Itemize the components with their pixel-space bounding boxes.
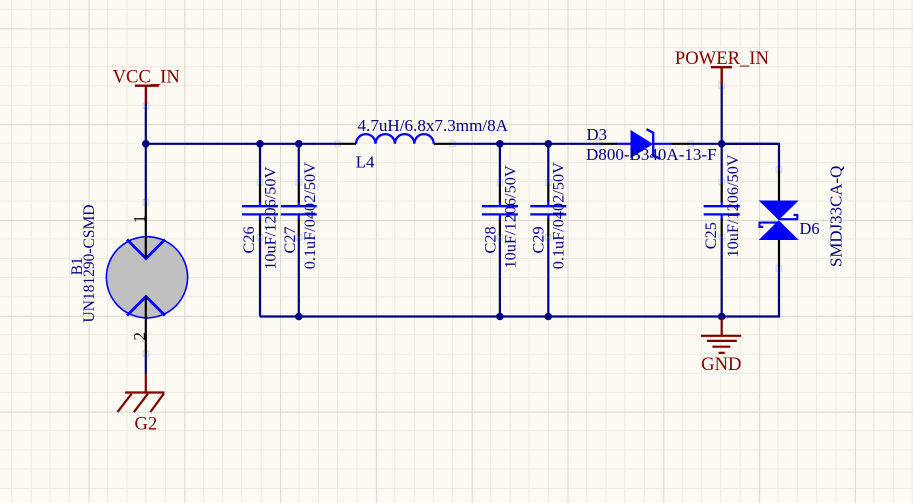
capacitor C25 bbox=[704, 201, 740, 220]
node junction C28 top bbox=[496, 140, 504, 148]
svg-text:10uF/1206/50V: 10uF/1206/50V bbox=[500, 165, 519, 268]
wire C26 top bbox=[259, 144, 261, 183]
wire C29 top bbox=[547, 144, 549, 183]
wire bottom rail bbox=[260, 315, 722, 317]
svg-text:C25: C25 bbox=[701, 222, 720, 249]
wire B1 to G2 bbox=[145, 354, 147, 375]
pin C26 top bbox=[259, 183, 261, 202]
node junction C29 bottom bbox=[545, 313, 553, 321]
svg-text:G2: G2 bbox=[135, 414, 158, 435]
pin C29 top bbox=[547, 183, 549, 202]
capacitor C28 bbox=[482, 201, 518, 220]
pin C29 bottom bbox=[547, 219, 549, 237]
node junction VCC bbox=[142, 140, 150, 148]
svg-text:POWER_IN: POWER_IN bbox=[675, 48, 769, 69]
svg-text:C28: C28 bbox=[480, 226, 499, 253]
TVS diode D6 bbox=[759, 201, 799, 241]
wire C26 bottom bbox=[259, 237, 261, 316]
pin 2 of B1 bbox=[145, 297, 147, 354]
svg-text:SMDJ33CA-Q: SMDJ33CA-Q bbox=[827, 166, 846, 267]
pin C28 top bbox=[499, 183, 501, 202]
wire C27 bottom bbox=[298, 237, 300, 316]
capacitor C27 bbox=[281, 201, 317, 220]
power port POWER_IN bbox=[675, 48, 769, 85]
pin C27 bottom bbox=[298, 219, 300, 237]
pin C25 top bbox=[721, 183, 723, 202]
pin C25 bottom bbox=[721, 219, 723, 237]
pin hotspot markers bbox=[143, 83, 782, 357]
svg-text:10uF/1206/50V: 10uF/1206/50V bbox=[723, 154, 742, 257]
pin D6 top bbox=[778, 169, 780, 200]
svg-text:UN181290-CSMD: UN181290-CSMD bbox=[81, 205, 98, 323]
wire diode to POWER_IN node bbox=[691, 143, 779, 145]
svg-text:D6: D6 bbox=[800, 219, 820, 238]
wire B1 top bbox=[145, 144, 147, 202]
power port GND bbox=[701, 317, 741, 375]
wire main top rail bbox=[146, 143, 338, 145]
pin D3 right bbox=[672, 143, 691, 145]
power port VCC_IN bbox=[113, 67, 180, 105]
wire C29 bottom bbox=[547, 237, 549, 316]
pin D3 left bbox=[599, 143, 617, 145]
node junction C27 bottom bbox=[295, 313, 303, 321]
wire POWER_IN to D6 branch top bbox=[722, 144, 779, 170]
pin C27 top bbox=[298, 183, 300, 202]
svg-text:0.1uF/0402/50V: 0.1uF/0402/50V bbox=[548, 162, 567, 269]
svg-text:D3: D3 bbox=[587, 125, 608, 144]
svg-text:L4: L4 bbox=[356, 152, 375, 171]
pin 1 of B1 bbox=[145, 202, 147, 258]
capacitor C26 bbox=[242, 201, 278, 220]
node junction C26 top bbox=[256, 140, 264, 148]
svg-text:D800-B340A-13-F: D800-B340A-13-F bbox=[586, 145, 717, 164]
wire C25 bottom bbox=[721, 237, 723, 316]
wire C28 bottom bbox=[499, 237, 501, 316]
wire inductor to diode bbox=[453, 143, 599, 145]
wire C25 top bbox=[721, 144, 723, 183]
capacitor C29 bbox=[530, 201, 566, 220]
pin C26 bottom bbox=[259, 219, 261, 237]
svg-text:0.1uF/0402/50V: 0.1uF/0402/50V bbox=[300, 162, 319, 269]
pin C28 bottom bbox=[499, 219, 501, 237]
pin L4 left bbox=[338, 143, 357, 145]
pin D6 bottom bbox=[778, 240, 780, 269]
node junction GND bbox=[718, 313, 726, 321]
diode D3 bbox=[616, 129, 672, 159]
svg-text:4.7uH/6.8x7.3mm/8A: 4.7uH/6.8x7.3mm/8A bbox=[358, 116, 509, 135]
wire C27 top bbox=[298, 144, 300, 183]
node junction C27 top bbox=[295, 140, 303, 148]
wire POWER_IN stub bbox=[721, 84, 723, 143]
inductor L4 bbox=[356, 134, 434, 144]
ground G2 (earth) bbox=[118, 374, 165, 435]
svg-text:GND: GND bbox=[701, 354, 741, 375]
svg-text:1: 1 bbox=[130, 215, 149, 223]
svg-text:10uF/1206/50V: 10uF/1206/50V bbox=[261, 166, 280, 269]
svg-text:C27: C27 bbox=[280, 226, 299, 253]
node junction POWER_IN bbox=[718, 140, 726, 148]
svg-text:C26: C26 bbox=[239, 226, 258, 253]
node junction C28 bottom bbox=[496, 313, 504, 321]
fuse B1 body bbox=[106, 237, 187, 318]
svg-text:VCC_IN: VCC_IN bbox=[113, 67, 180, 88]
wire D6 bottom bbox=[722, 269, 779, 317]
wire C28 top bbox=[499, 144, 501, 183]
svg-text:2: 2 bbox=[130, 332, 149, 340]
node junction C29 top bbox=[545, 140, 553, 148]
pin L4 right bbox=[434, 143, 453, 145]
wire VCC_IN stub bbox=[145, 104, 147, 144]
svg-text:C29: C29 bbox=[528, 226, 547, 253]
